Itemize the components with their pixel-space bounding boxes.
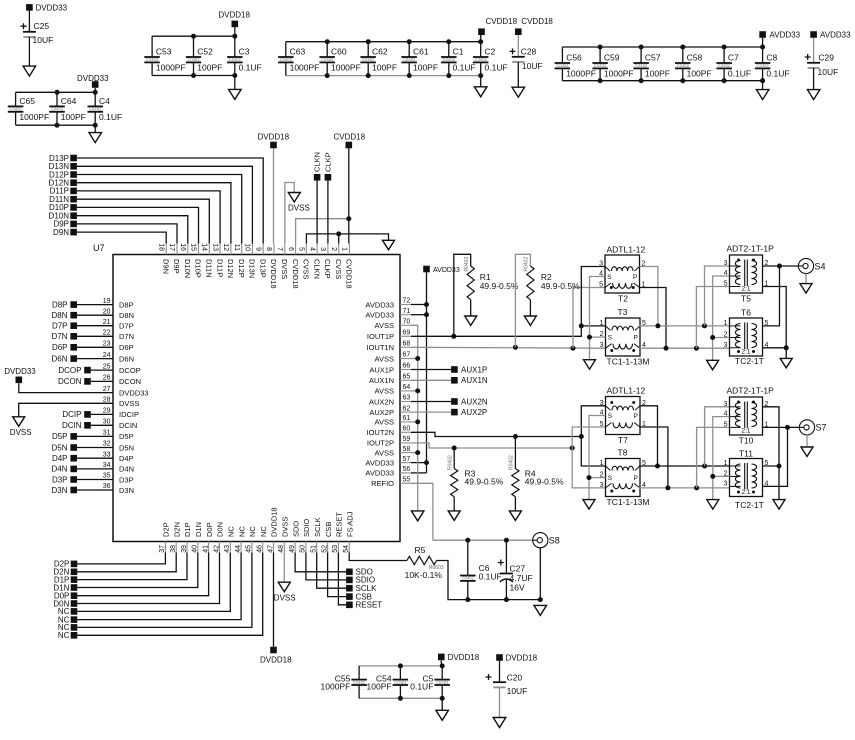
- capacitor C20 plates: [493, 681, 506, 683]
- svg-text:DVDD33: DVDD33: [4, 367, 36, 376]
- wire R5 to bottom rail: [437, 561, 541, 600]
- svg-text:0.1UF: 0.1UF: [239, 62, 262, 72]
- svg-text:T2: T2: [618, 294, 628, 304]
- wire: [91, 413, 113, 415]
- svg-text:12: 12: [222, 243, 229, 251]
- wire CVDD18 branch pin 6: [296, 219, 349, 244]
- svg-text:46: 46: [257, 545, 264, 553]
- wire: [441, 666, 443, 680]
- wire: [723, 68, 725, 80]
- svg-text:DVSS: DVSS: [281, 517, 290, 537]
- svg-text:CVDD18: CVDD18: [521, 17, 553, 26]
- junction: [415, 356, 420, 361]
- terminal D0P (bottom): [71, 592, 78, 599]
- wire NC to pin 46: [77, 553, 262, 636]
- svg-text:DCOP: DCOP: [58, 366, 81, 375]
- capacitor C3 0.1UF: [227, 56, 243, 58]
- svg-text:AUX1P: AUX1P: [461, 365, 487, 374]
- transformer T8 TC1-1-13M: [606, 459, 641, 497]
- svg-text:IOUT2N: IOUT2N: [366, 428, 394, 437]
- svg-text:DVDD33: DVDD33: [36, 3, 68, 12]
- svg-text:23: 23: [103, 341, 111, 348]
- svg-text:NC: NC: [248, 526, 257, 537]
- wire: [77, 468, 113, 470]
- svg-text:D6P: D6P: [119, 343, 134, 352]
- svg-text:5: 5: [724, 421, 728, 428]
- svg-text:R5: R5: [415, 545, 426, 555]
- pin 54 FS ADJ (bottom): [348, 542, 350, 553]
- svg-text:C2: C2: [485, 47, 496, 57]
- wire CVSS pins 5,2: [306, 234, 388, 244]
- ground: [512, 87, 525, 97]
- junction: [694, 485, 699, 490]
- svg-text:62: 62: [403, 405, 411, 412]
- op-amp U7 DAC chip body: [113, 255, 400, 542]
- svg-text:70: 70: [403, 319, 411, 326]
- svg-text:69: 69: [403, 330, 411, 337]
- wire: [56, 92, 58, 106]
- wire SCLK: [317, 553, 347, 589]
- wire: [499, 687, 501, 717]
- wire IOUT1P pin 69: [411, 326, 606, 336]
- svg-text:56: 56: [403, 466, 411, 473]
- wire: [467, 581, 469, 600]
- wire T7 pin2 down: [640, 406, 658, 466]
- wire NC to pin 45: [77, 553, 252, 628]
- pin 12 D12N (top): [230, 244, 232, 255]
- wire D13P to pin 9: [77, 158, 263, 244]
- pin 10 D13N (top): [251, 244, 253, 255]
- pin 5 CVSS (top): [305, 244, 307, 255]
- svg-text:C7: C7: [728, 53, 739, 63]
- power AVDD33 (C29): [810, 31, 817, 38]
- junction: [415, 388, 420, 393]
- svg-text:T7: T7: [618, 435, 628, 445]
- junction: [655, 323, 660, 328]
- capacitor C62 100PF: [360, 56, 376, 58]
- svg-text:S8: S8: [549, 536, 560, 546]
- svg-text:D2N: D2N: [172, 522, 181, 537]
- wire NC to pin 44: [77, 553, 241, 620]
- wire: [440, 660, 442, 666]
- wire: [723, 47, 725, 63]
- junction: [415, 450, 420, 455]
- pin 22 D7N (left): [102, 335, 113, 337]
- svg-text:R0402: R0402: [524, 257, 530, 272]
- terminal DCON: [84, 378, 91, 385]
- wire T10 pin1 to S7: [763, 426, 800, 428]
- wire T8 pin3 drop: [572, 448, 605, 488]
- svg-text:DVDD18: DVDD18: [258, 133, 290, 142]
- power DVDD18 (top, pin 8): [270, 142, 277, 149]
- svg-text:1000PF: 1000PF: [566, 68, 596, 78]
- svg-text:T10: T10: [739, 436, 754, 446]
- terminal AUX1N: [411, 379, 451, 381]
- svg-text:1000PF: 1000PF: [331, 62, 361, 72]
- svg-text:2: 2: [330, 247, 337, 251]
- wire: [441, 698, 443, 710]
- junction: [346, 216, 351, 221]
- wire D1N to pin 40: [77, 553, 198, 588]
- terminal D1N (bottom): [71, 584, 78, 591]
- wire: [682, 47, 684, 63]
- svg-text:63: 63: [403, 395, 411, 402]
- svg-text:S: S: [608, 335, 613, 342]
- svg-text:10: 10: [244, 243, 251, 251]
- pin 25 DCOP (left): [102, 369, 113, 371]
- wire: [77, 489, 113, 491]
- svg-text:NC: NC: [58, 631, 70, 640]
- terminal D7P: [70, 322, 77, 329]
- ground (S4): [800, 284, 812, 294]
- wire: [453, 448, 455, 469]
- junction: [398, 696, 403, 701]
- wire AVSS rail: [411, 325, 418, 511]
- capacitor C6 plates: [460, 575, 476, 577]
- capacitor C29 10UF: [805, 54, 811, 60]
- transformer T2 ADTL1-12: [605, 255, 640, 293]
- ground: [23, 66, 35, 76]
- svg-text:D4N: D4N: [51, 465, 67, 474]
- svg-text:AVDD33: AVDD33: [365, 469, 394, 478]
- power CVDD18 (C2 group): [478, 28, 485, 35]
- pin 48 DVSS (bottom): [283, 542, 285, 553]
- power AVDD33 (C8 group): [759, 31, 766, 38]
- wire: [411, 304, 427, 306]
- wire: [480, 62, 482, 75]
- terminal D9P: [70, 221, 77, 228]
- svg-text:5: 5: [724, 281, 728, 288]
- svg-text:10UF: 10UF: [818, 67, 839, 77]
- svg-text:18: 18: [157, 243, 164, 251]
- cap group C56 C59 C57 C58 C7 C8 rails: [562, 46, 762, 48]
- capacitor C25 10UF: [21, 23, 27, 29]
- svg-text:16V: 16V: [510, 583, 525, 593]
- junction: [407, 39, 412, 44]
- junction: [710, 335, 715, 340]
- transformer T10 ADT2-1T-1P: [730, 397, 763, 435]
- wire IOUT2N pin 60: [411, 432, 581, 436]
- pin 1 CVDD18 (top): [349, 244, 351, 255]
- wire: [517, 35, 519, 57]
- wire: [411, 390, 418, 392]
- svg-text:AUX2P: AUX2P: [461, 408, 487, 417]
- svg-text:D5N: D5N: [119, 443, 134, 452]
- svg-text:U7: U7: [93, 243, 105, 253]
- svg-text:26: 26: [103, 375, 111, 382]
- wire T2 pin1 down: [640, 288, 667, 349]
- wire: [193, 36, 195, 57]
- wire: [77, 358, 113, 360]
- svg-text:DCIN: DCIN: [119, 421, 137, 430]
- pin 26 DCON (left): [102, 380, 113, 382]
- wire DVSS pin 7: [285, 183, 294, 244]
- junction: [325, 39, 330, 44]
- capacitor C54 100PF: [393, 679, 409, 681]
- ground (R2): [524, 316, 536, 326]
- svg-text:11: 11: [233, 244, 240, 251]
- wire: [358, 685, 360, 698]
- wire: [480, 42, 482, 57]
- svg-text:36: 36: [103, 483, 111, 490]
- pin 4 CLKN (top): [316, 244, 318, 255]
- svg-text:DCIN: DCIN: [62, 421, 82, 430]
- terminal D3N: [70, 487, 77, 494]
- svg-text:D6N: D6N: [51, 354, 67, 363]
- svg-text:D5P: D5P: [119, 432, 134, 441]
- svg-text:C0402: C0402: [353, 680, 366, 685]
- wire: [561, 68, 563, 80]
- junction R1 tap: [451, 334, 456, 339]
- pin 72 AVDD33 (right): [400, 304, 411, 306]
- wire: [599, 68, 601, 80]
- svg-text:D8P: D8P: [52, 300, 68, 309]
- svg-text:C60: C60: [331, 47, 347, 57]
- svg-text:14: 14: [201, 243, 208, 251]
- wire: [367, 62, 369, 75]
- transformer T3 TC1-1-13M: [606, 318, 641, 356]
- svg-text:100PF: 100PF: [61, 112, 86, 122]
- wire: [283, 553, 285, 583]
- svg-text:D9N: D9N: [161, 259, 170, 274]
- junction R4 tap: [513, 434, 518, 439]
- pin 9 D13P (top): [262, 244, 264, 255]
- svg-text:59: 59: [403, 436, 411, 443]
- ground: [436, 710, 449, 720]
- junction: [598, 45, 603, 50]
- junction: [424, 460, 429, 465]
- svg-text:C27: C27: [510, 564, 526, 574]
- svg-text:C59: C59: [604, 53, 620, 63]
- svg-text:R0402: R0402: [464, 257, 470, 272]
- svg-text:5: 5: [600, 421, 604, 428]
- svg-text:100PF: 100PF: [197, 62, 222, 72]
- svg-text:RESET: RESET: [335, 512, 344, 537]
- terminal D4P: [70, 455, 77, 462]
- svg-text:C1: C1: [453, 47, 464, 57]
- pin 20 D8N (left): [102, 314, 113, 316]
- capacitor C5 0.1UF: [434, 679, 450, 681]
- svg-text:C25: C25: [34, 21, 50, 31]
- junction: [336, 231, 341, 236]
- terminal NC (bottom): [71, 616, 78, 623]
- junction: [538, 597, 543, 602]
- pin 7 DVSS (top): [284, 244, 286, 255]
- wire: [28, 11, 30, 32]
- wire: [326, 42, 328, 57]
- wire T8 pin5 to T11 pin1: [639, 465, 730, 467]
- wire: [640, 68, 642, 80]
- wire: [514, 497, 516, 511]
- wire: [77, 435, 113, 437]
- svg-text:AVSS: AVSS: [375, 387, 394, 396]
- svg-text:P: P: [633, 274, 637, 281]
- svg-text:S4: S4: [815, 261, 826, 271]
- terminal D7N: [70, 333, 77, 340]
- pin 44 NC (bottom): [240, 542, 242, 553]
- junction: [366, 39, 371, 44]
- junction: [55, 123, 60, 128]
- svg-text:58: 58: [403, 446, 411, 453]
- junction: [760, 45, 765, 50]
- wire RESET: [338, 553, 346, 605]
- pin 32 D5N (left): [102, 447, 113, 449]
- terminal D12N: [70, 179, 77, 186]
- wire: [411, 452, 418, 454]
- ground (T7/T8 center): [583, 500, 595, 510]
- transformer T5 ADT2-1T-1P: [730, 255, 763, 293]
- wire NC to pin 43: [77, 553, 230, 612]
- svg-text:100PF: 100PF: [645, 68, 670, 78]
- capacitor C53 1000PF: [144, 56, 160, 58]
- wire D12P to pin 11: [77, 175, 242, 244]
- wire: [453, 497, 455, 511]
- wire T7 pin1 down: [640, 427, 668, 488]
- pin 47 DVDD18 (bottom): [273, 542, 275, 553]
- wire: [411, 358, 418, 360]
- wire T3 pin4 to T6 pin3: [639, 347, 730, 349]
- junction: [407, 73, 412, 78]
- junction: [366, 73, 371, 78]
- svg-text:5: 5: [298, 247, 305, 251]
- terminal DCOP: [84, 367, 91, 374]
- wire riser to T10 pin5: [697, 427, 730, 488]
- wire T6 pin4: [763, 347, 787, 349]
- terminal AUX2N: [411, 401, 451, 403]
- junction: [478, 73, 483, 78]
- wire: [480, 76, 482, 87]
- junction: [424, 302, 429, 307]
- pin 67 AVSS (right): [400, 358, 411, 360]
- ground: [89, 133, 102, 143]
- svg-text:72: 72: [403, 298, 411, 305]
- junction: [760, 78, 765, 83]
- svg-text:DVSS: DVSS: [288, 204, 310, 213]
- svg-text:SCLK: SCLK: [313, 517, 322, 537]
- svg-text:D13N: D13N: [248, 259, 257, 278]
- power CVDD18 (top, pin 1): [346, 142, 353, 149]
- ground (R1): [465, 316, 477, 326]
- junction: [598, 78, 603, 83]
- svg-text:1000PF: 1000PF: [19, 112, 49, 122]
- terminal D11N: [70, 196, 77, 203]
- wire: [77, 335, 113, 337]
- pin 11 D12P (top): [241, 244, 243, 255]
- pin 15 D10P (top): [198, 244, 200, 255]
- wire: [514, 437, 516, 469]
- junction: [446, 39, 451, 44]
- pin 21 D7P (left): [102, 325, 113, 327]
- wire T7 pin5 riser: [572, 427, 605, 448]
- svg-text:NC: NC: [237, 526, 246, 537]
- svg-text:DVDD18: DVDD18: [218, 10, 250, 19]
- svg-text:D11P: D11P: [215, 259, 224, 277]
- svg-text:DVDD18: DVDD18: [506, 654, 538, 663]
- junction: [571, 346, 576, 351]
- connector S7: [799, 420, 814, 435]
- svg-text:37: 37: [159, 545, 166, 553]
- wire R1 hook: [454, 254, 471, 336]
- wire: [517, 62, 519, 87]
- terminal D13N: [70, 163, 77, 170]
- capacitor C25 plates: [23, 31, 36, 33]
- svg-text:39: 39: [181, 545, 188, 553]
- svg-text:T5: T5: [741, 294, 751, 304]
- junction: [415, 419, 420, 424]
- wire D0N to pin 42: [77, 553, 219, 604]
- capacitor C59 1000PF: [592, 62, 608, 64]
- wire: [348, 148, 350, 243]
- svg-text:C52: C52: [197, 47, 213, 57]
- svg-text:DCON: DCON: [119, 377, 141, 386]
- svg-text:D5N: D5N: [51, 443, 67, 452]
- capacitor C56 1000PF: [555, 62, 571, 64]
- svg-text:CSB: CSB: [324, 522, 333, 537]
- junction: [191, 73, 196, 78]
- svg-text:49.9-0.5%: 49.9-0.5%: [541, 281, 580, 291]
- svg-text:DVDD33: DVDD33: [77, 74, 109, 83]
- ground (T6 pin4): [780, 358, 792, 368]
- svg-text:0.1UF: 0.1UF: [410, 681, 433, 691]
- pin 2 CVSS (top): [338, 244, 340, 255]
- pin 34 D4N (left): [102, 468, 113, 470]
- svg-text:10UF: 10UF: [507, 686, 528, 696]
- capacitor C7 0.1UF: [716, 62, 732, 64]
- terminal CLKP: [325, 174, 332, 181]
- svg-text:D1N: D1N: [194, 522, 203, 537]
- wire D0P to pin 41: [77, 553, 208, 596]
- svg-text:0.1UF: 0.1UF: [99, 112, 122, 122]
- pin 70 AVSS (right): [400, 324, 411, 326]
- svg-text:DVSS: DVSS: [119, 399, 139, 408]
- svg-text:AVSS: AVSS: [375, 354, 394, 363]
- svg-text:38: 38: [170, 545, 177, 553]
- terminal D2N (bottom): [71, 569, 78, 576]
- svg-text:AUX2N: AUX2N: [369, 397, 394, 406]
- wire: [94, 88, 96, 93]
- svg-text:P: P: [634, 475, 638, 482]
- junction: [680, 78, 685, 83]
- svg-text:DVSS: DVSS: [274, 594, 296, 603]
- svg-text:D10P: D10P: [194, 259, 203, 278]
- wire: [19, 383, 113, 393]
- svg-text:T6: T6: [741, 308, 751, 318]
- wire: [367, 42, 369, 57]
- pin 23 D6P (left): [102, 346, 113, 348]
- svg-text:C57: C57: [645, 53, 661, 63]
- wire: [338, 234, 340, 244]
- svg-text:3: 3: [724, 342, 728, 349]
- svg-text:AUX2P: AUX2P: [369, 408, 394, 417]
- pin 64 AVSS (right): [400, 390, 411, 392]
- svg-text:R0402: R0402: [448, 455, 454, 470]
- svg-text:3: 3: [600, 400, 604, 407]
- pin 43 NC (bottom): [229, 542, 231, 553]
- svg-text:ADT2-1T-1P: ADT2-1T-1P: [727, 244, 775, 254]
- wire T5 pin1 to T6 pin4 and ground: [763, 287, 787, 359]
- wire T2 pin5 riser: [573, 288, 605, 349]
- svg-text:D13P: D13P: [258, 259, 267, 278]
- pin 17 D9P (top): [176, 244, 178, 255]
- pin 66 AUX1P (right): [400, 369, 411, 371]
- pin 50 SDIO (bottom): [305, 542, 307, 553]
- terminal DCIN: [84, 422, 91, 429]
- svg-text:C65: C65: [19, 96, 35, 106]
- svg-text:DVDD18: DVDD18: [270, 507, 279, 537]
- svg-text:53: 53: [332, 545, 339, 553]
- wire T11 pin2: [713, 475, 730, 477]
- svg-text:D1P: D1P: [183, 522, 192, 537]
